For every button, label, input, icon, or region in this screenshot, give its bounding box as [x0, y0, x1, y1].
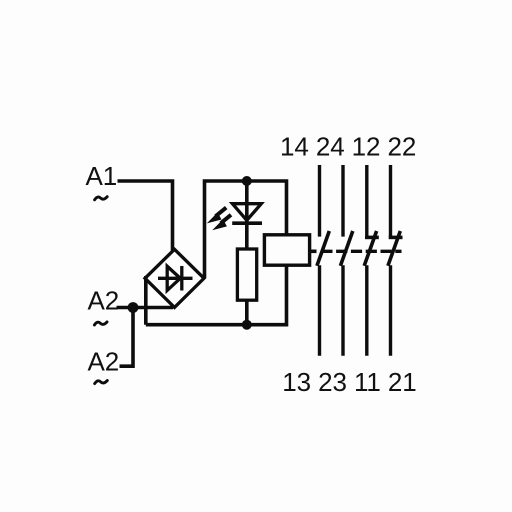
svg-text:13 23 11 21: 13 23 11 21: [282, 367, 416, 397]
svg-text:A2: A2: [88, 347, 120, 377]
svg-text:A2: A2: [88, 286, 120, 316]
svg-text:A1: A1: [86, 161, 118, 191]
svg-text:14 24 12 22: 14 24 12 22: [280, 131, 416, 161]
